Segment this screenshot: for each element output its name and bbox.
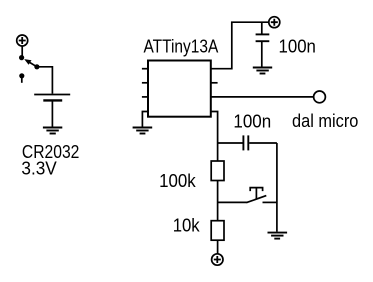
open terminal (dal micro) — [314, 91, 326, 103]
pin right 3 output wire — [211, 96, 313, 98]
switch SW1 — [19, 55, 40, 83]
pin left 1 — [142, 68, 148, 70]
ground (C1) — [253, 68, 272, 74]
wire — [37, 67, 53, 94]
svg-text:100k: 100k — [159, 171, 197, 191]
ground (pushbutton) — [268, 233, 288, 239]
power terminal J1 (+) top-left — [17, 35, 28, 46]
wire — [51, 101, 53, 127]
pushbutton S1 — [218, 188, 277, 203]
svg-text:3.3V: 3.3V — [21, 158, 56, 178]
pin left 2 — [142, 82, 148, 84]
svg-text:dal micro: dal micro — [292, 111, 358, 131]
wire — [217, 181, 219, 221]
svg-text:100n: 100n — [279, 36, 316, 56]
wire — [261, 42, 263, 67]
wire — [261, 22, 263, 33]
node: wire to C2 — [218, 142, 243, 144]
capacitor C1 100n (decoupling) — [256, 34, 270, 41]
wire (right rail down) — [276, 143, 278, 232]
op-amp U1 ATTiny13A body — [148, 61, 211, 117]
resistor R2 10k — [211, 221, 224, 241]
battery BT1 CR2032 — [34, 95, 70, 101]
pin right 1 (VCC) wire — [211, 22, 268, 68]
wire — [217, 143, 219, 161]
ground (battery) — [43, 128, 62, 134]
power terminal (+) bottom — [212, 254, 223, 265]
pin right 4 wire down — [211, 112, 218, 144]
pin right 2 stub — [211, 82, 218, 84]
svg-text:ATTiny13A: ATTiny13A — [144, 36, 219, 56]
pin left 3 — [142, 96, 148, 98]
svg-text:10k: 10k — [173, 216, 201, 236]
resistor R1 100k — [211, 161, 224, 181]
svg-text:100n: 100n — [233, 111, 271, 131]
ground (IC) — [133, 128, 153, 134]
power terminal (+) top-right — [269, 17, 280, 28]
wire — [217, 240, 219, 254]
pin left 4 (GND) — [142, 112, 148, 127]
capacitor C2 100n (series) — [243, 135, 248, 150]
wire — [21, 46, 23, 56]
wire — [249, 142, 277, 144]
